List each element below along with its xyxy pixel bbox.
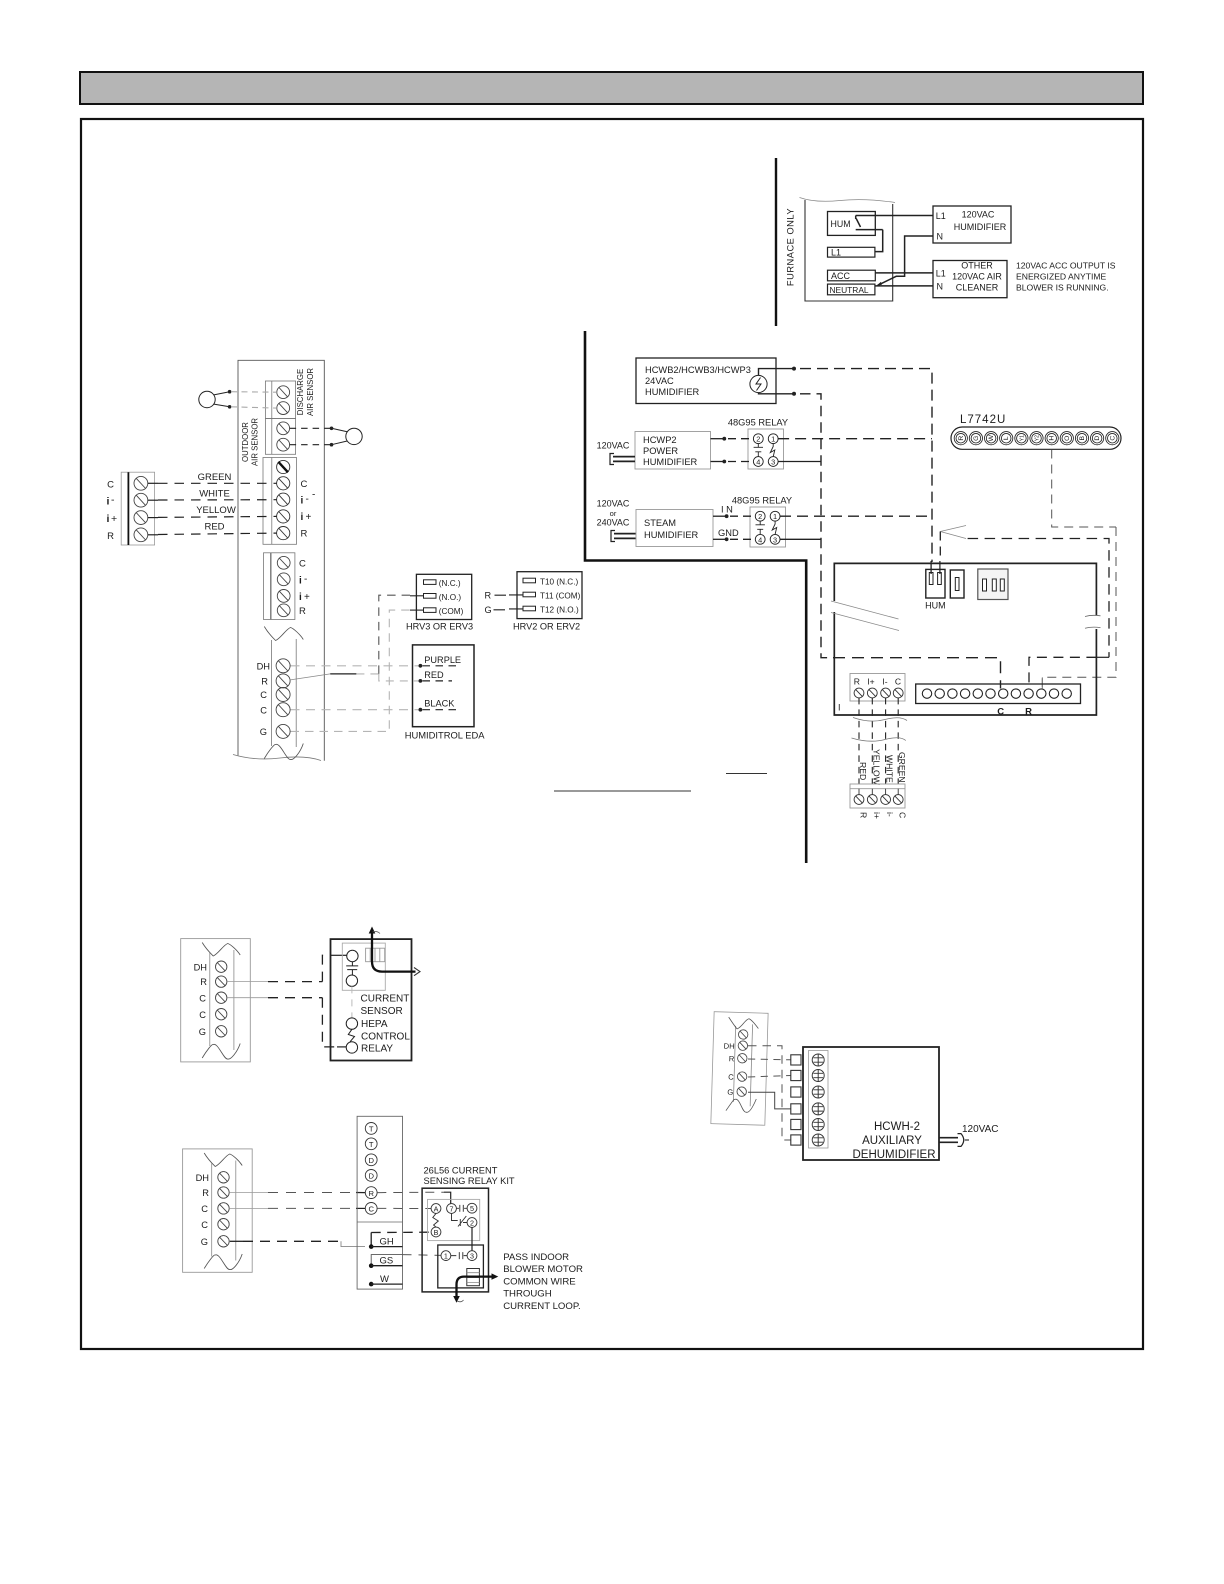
svg-text:L1: L1 [936,268,946,278]
svg-text:H: H [1049,436,1056,441]
junction dot [792,392,796,396]
relay1 coil symbol [754,444,763,457]
GS bracket wire to 1 [371,1255,441,1266]
svg-text:G: G [973,436,980,441]
L7742U pin B [1075,432,1088,445]
HRV3 terminal N.O. [424,594,437,599]
svg-text:CLEANER: CLEANER [956,283,999,293]
svg-text:i: i [301,496,304,507]
svg-text:POWER: POWER [643,446,678,456]
svg-text:R: R [958,436,965,441]
humiditrol PURPLE terminal [419,664,423,668]
main terminal column outline [238,360,324,760]
svg-text:O: O [1064,436,1071,441]
C screw (column) [276,688,290,702]
dashed wire G to COM [291,610,411,731]
svg-text:HUMIDITROL EDA: HUMIDITROL EDA [405,730,486,741]
svg-text:HEPA: HEPA [361,1019,388,1030]
terminal HUM box [828,212,876,236]
svg-text:G: G [485,605,492,615]
HRV2 terminal T11 [523,592,536,597]
main block screw C [277,477,290,490]
GS terminal dot [369,1263,374,1268]
junction dot [792,367,796,371]
arrowhead at NEUTRAL [876,282,882,286]
left block screw i+ [134,511,148,525]
HRV2 terminal T12 [523,606,536,611]
svg-text:Y2: Y2 [1035,435,1041,441]
svg-text:C: C [728,1073,734,1082]
svg-text:C: C [895,677,901,687]
current sensor box [331,939,412,1060]
L7742U pin L [1000,432,1013,445]
furnace-only section divider line [775,158,777,326]
kit terminal 1 [441,1251,451,1261]
L7742U pin H [1045,432,1058,445]
svg-text:C: C [260,705,267,715]
dashed wire relay1 pin1 to HUM net [778,438,932,440]
HUM connector pin 1 [929,573,933,585]
svg-text:T: T [369,1125,374,1134]
relay2 terminal 2 [755,511,765,521]
svg-text:ACC: ACC [831,271,851,281]
svg-text:C: C [368,1205,374,1214]
svg-text:R: R [729,1054,735,1063]
wire NEUTRAL to air cleaner N [875,285,933,287]
wire NEUTRAL diagonal up to humidifier N branch [878,236,934,285]
HUMIDITROL EDA box [413,645,475,727]
svg-text:HCWH-2: HCWH-2 [874,1121,920,1133]
wire steam GND to relay2 pin4 [713,538,727,540]
wire HUM bottom contact down to L1 box [875,230,883,252]
kit terminal A [431,1204,441,1214]
W terminal dot [369,1282,374,1287]
HUM switch symbol [856,216,883,230]
svg-text:3: 3 [470,1252,474,1261]
strip B inner rails [211,1164,213,1257]
HRV3 terminal N.C. [424,580,437,585]
terminal T1 [365,1123,377,1135]
svg-text:D: D [368,1172,374,1181]
svg-text:NEUTRAL: NEUTRAL [830,285,869,295]
svg-text:+: + [111,513,117,525]
contact 7-5 [456,1205,467,1212]
sensor lead dot [330,427,334,431]
svg-text:G: G [260,727,267,737]
svg-text:L7742U: L7742U [960,414,1006,426]
cable entry diagonal hairlines [831,601,899,631]
dashed wire HCWB2 top to HUM pin (vertical x932) [800,369,932,562]
svg-text:N: N [937,281,944,291]
outdoor sensor screw 2 [277,438,290,451]
discharge sensor screw 2 [277,402,290,415]
wire into control box edge [1096,656,1109,658]
kit terminal 3 [467,1251,477,1261]
svg-text:COMMON WIRE: COMMON WIRE [503,1276,575,1287]
plug symbol HCWH-2 [939,1134,969,1147]
dashed wire C to BLACK [291,709,419,711]
svg-text:C: C [299,559,306,570]
svg-text:BLOWER MOTOR: BLOWER MOTOR [503,1264,583,1275]
current sensor inner module [342,943,385,990]
svg-text:RED: RED [858,762,868,780]
svg-text:AIR SENSOR: AIR SENSOR [306,368,315,416]
svg-text:i: i [301,512,304,523]
dashed common wire to strip circle C [833,658,1001,689]
thick blower wire through loop [372,931,416,972]
svg-text:R: R [1025,707,1032,718]
svg-text:i+: i+ [872,812,882,819]
svg-text:HUM: HUM [925,601,946,611]
relay2 coil symbol [756,521,765,534]
svg-text:4: 4 [756,458,760,467]
wavy break across wires 2 [852,738,906,741]
svg-text:RED: RED [424,670,444,680]
wire RED dashed [148,533,277,535]
svg-text:-: - [111,494,115,506]
stray separator line 2 [726,773,767,775]
dashed wire relay2 pin1 to HUM net [780,515,932,517]
svg-text:SENSING RELAY KIT: SENSING RELAY KIT [424,1176,515,1186]
svg-text:R: R [301,529,308,540]
HCWB2/HCWB3/HCWP3 24VAC humidifier box [636,358,776,404]
wire YELLOW dashed [148,516,277,517]
svg-text:48G95 RELAY: 48G95 RELAY [728,418,788,428]
step section divider thick line [585,331,806,863]
wire HUM to L1 terminal of 120VAC humidifier [856,215,933,217]
svg-text:GND: GND [718,528,739,538]
discharge sensor screw 1 [277,386,290,399]
svg-text:T10 (N.C.): T10 (N.C.) [540,578,578,587]
hepa relay contact top [346,1018,357,1029]
strip A wavy bottom [202,1044,240,1060]
svg-text:AUXILIARY: AUXILIARY [862,1135,922,1147]
wire relay2 pin3 to common vertical [780,538,821,540]
dashed wire bulb to discharge screw 1 [231,391,277,394]
discharge air sensor bulb [199,391,230,407]
svg-text:I-: I- [882,677,887,687]
wire C to T-strip C [230,1207,365,1209]
svg-text:R: R [261,677,268,687]
wavy break across wires 1 [853,718,907,722]
svg-text:HRV2 OR ERV2: HRV2 OR ERV2 [513,622,580,632]
connector 2 on control box [950,570,964,598]
svg-text:1: 1 [773,512,777,521]
svg-text:1: 1 [771,435,775,444]
svg-text:D: D [1094,436,1101,441]
wire HCWP2 to relay1 pin2 [711,438,725,440]
wire R to current sensor [228,955,347,981]
svg-text:R: R [299,606,306,617]
svg-text:120VAC: 120VAC [597,441,630,451]
HRV3 terminal COM [424,608,437,613]
HRV2 terminal T10 [523,578,536,583]
svg-text:120VAC: 120VAC [962,1124,999,1135]
main block screw i+ [277,510,290,523]
HCWH-2 screw strip [809,1051,829,1149]
dashed wire L7742U pin H to circle10 [1052,450,1116,528]
svg-text:B: B [434,1228,439,1237]
svg-text:i: i [299,592,302,603]
svg-text:240VAC: 240VAC [597,518,630,528]
svg-text:C: C [201,1204,208,1214]
left block screw R [134,528,148,542]
svg-text:HCWP2: HCWP2 [643,435,677,445]
L7742U pin W [985,432,998,445]
svg-text:THROUGH: THROUGH [503,1289,552,1300]
HRV3 OR ERV3 box [416,574,471,619]
wire L7742U branch into strip circle 10 [1041,677,1043,688]
relay2 terminal 4 [755,534,765,544]
svg-text:SENSOR: SENSOR [361,1006,403,1017]
svg-text:I+: I+ [867,677,874,687]
R I+ I- C terminal block [850,674,905,702]
svg-text:C: C [301,479,308,490]
thermostat control box outline with gaps [834,563,1096,715]
HCWH-2 screws [812,1054,824,1146]
svg-text:AIR SENSOR: AIR SENSOR [251,418,260,466]
svg-text:120VAC: 120VAC [962,210,995,220]
48G95 relay 2 box [750,507,786,547]
main block screw 1 (bold) [277,460,290,473]
kit terminal B [431,1227,441,1237]
wire HCWP2 to relay1 pin4 [711,461,725,463]
svg-text:HRV3 OR ERV3: HRV3 OR ERV3 [406,622,473,632]
svg-text:STEAM: STEAM [644,518,676,528]
block2 screw R [277,604,290,617]
svg-text:7: 7 [450,1205,454,1214]
relay2 terminal 1 [770,511,780,521]
L7742U pin Y1 [1015,432,1028,445]
relay1 terminal 4 [753,457,763,467]
svg-text:R: R [202,1188,209,1198]
terminal R [365,1187,377,1199]
outdoor air sensor terminal strip [265,419,295,455]
furnace box wavy top edge [800,198,896,203]
humiditrol RED terminal [419,679,423,683]
strip B wavy top [204,1153,242,1167]
humidifier motor symbol [750,375,767,392]
current loop hatched block [467,1269,480,1286]
svg-text:HUMIDIFIER: HUMIDIFIER [644,530,699,540]
outdoor sensor screw 1 [277,422,290,435]
svg-text:R: R [200,977,207,987]
L7742U pin G [969,432,982,445]
HCWH-2 terminal squares column [791,1055,801,1145]
svg-text:C: C [107,479,114,490]
L7742U pin R [954,432,967,445]
wire WHITE dashed [148,499,277,502]
L7742U pin C [1106,432,1119,445]
wire relay1 pin3 to common vertical [778,461,820,463]
terminal L1 box [828,247,875,257]
arrowhead right to note [492,1273,499,1279]
steam humidifier box [636,510,713,547]
plug symbol steam [611,531,615,542]
C2 screw (column) [276,703,290,717]
svg-text:(N.C.): (N.C.) [439,579,461,588]
connector 2 pin [955,578,959,591]
wire R to junction [290,674,331,680]
dashed wire bulb to discharge screw 2 [231,407,277,408]
svg-text:L: L [1003,436,1010,440]
slanted DH-G strip near HCWH-2 [711,1012,768,1126]
relay1 contact symbol [770,444,775,457]
sensor lead dot [228,390,232,394]
svg-text:CONTROL: CONTROL [361,1032,410,1043]
R screw (column) [276,674,290,688]
L7742U harness connector pill [951,427,1121,449]
DH-G terminal strip A outer box [181,939,251,1062]
svg-text:RELAY: RELAY [361,1044,393,1055]
wire HCWB2 bottom output [759,393,795,394]
svg-text:RED: RED [204,522,224,533]
main block screw i- [277,493,290,506]
strip A wavy top [202,943,240,957]
short stubs into lower block [859,789,898,795]
outer border frame [81,119,1143,1349]
svg-text:i: i [107,496,110,508]
svg-text:GH: GH [380,1237,394,1248]
column bottom wavy break [233,755,321,761]
svg-text:GREEN: GREEN [198,472,232,483]
svg-text:(COM): (COM) [439,607,464,616]
48G95 relay 1 box [748,429,784,469]
svg-text:DISCHARGE: DISCHARGE [296,369,305,415]
GH bracket wire to B [371,1232,431,1246]
12-circle terminal strip [916,684,1081,704]
terminal NEUTRAL box [828,284,875,295]
main block screw R [277,527,290,540]
svg-text:R: R [107,531,114,542]
dashed wire fork right to R terminal [968,539,1109,658]
wire 2 to 3 [471,1227,473,1250]
discharge air sensor terminal strip [265,381,295,419]
svg-text:HUM: HUM [831,219,851,229]
svg-text:R: R [368,1189,374,1198]
svg-text:C: C [199,1010,206,1020]
dashed wire HCWB2 bottom to common vertical x821 [800,394,833,658]
dashed wire R junction to HRV3 N.O. vertical [356,673,378,675]
main 5-screw terminal block [263,458,297,545]
strip A screws DH R C C G [216,961,227,972]
svg-text:2: 2 [756,435,760,444]
block screws R I+ I- C [854,688,864,698]
svg-text:OUTDOOR: OUTDOOR [241,422,250,462]
connector 3 on control box [978,569,1008,600]
dashed wire outdoor screw1 to bulb [290,427,330,429]
L7742U pin O [1060,432,1073,445]
svg-text:YELLOW: YELLOW [196,505,236,516]
svg-text:ENERGIZED ANYTIME: ENERGIZED ANYTIME [1016,272,1107,282]
svg-text:-: - [306,494,309,505]
L7742U pin D [1091,432,1104,445]
svg-text:3: 3 [771,458,775,467]
svg-text:DEHUMIDIFIER: DEHUMIDIFIER [852,1149,935,1161]
connector 3 pins [983,579,1005,591]
humiditrol BLACK terminal [419,708,423,712]
wire C to hepa relay [228,998,347,1047]
sensor lead dot [330,443,334,447]
kit terminal 7 [447,1204,457,1214]
thick blower common wire through loop [457,1277,495,1299]
svg-text:L1: L1 [831,247,841,257]
svg-text:PURPLE: PURPLE [424,655,461,665]
relay kit inner module [428,1199,480,1240]
svg-text:26L56 CURRENT: 26L56 CURRENT [424,1166,498,1176]
wire G to square 4 [748,1092,791,1109]
relay1 terminal 1 [768,434,778,444]
strip B screws DH R C C G [218,1172,229,1183]
kit lower module box [438,1245,484,1288]
svg-text:T: T [369,1140,374,1149]
terminal D2 [365,1170,377,1182]
svg-text:GS: GS [380,1256,394,1267]
wire HCWB2 top output [759,369,795,376]
plug symbol HCWP2 [610,454,614,465]
terminal T2 [365,1138,377,1150]
svg-text:T12 (N.O.): T12 (N.O.) [540,606,579,615]
svg-text:N: N [937,232,944,242]
relay kit box [422,1188,488,1292]
wire R to square 1 [748,1058,791,1061]
wire G to GH dot [230,1241,365,1246]
svg-text:WHITE: WHITE [199,488,230,499]
relay2 contact symbol [772,521,777,534]
svg-text:C: C [898,812,908,818]
strip A inner rails [209,953,211,1046]
svg-text:R: R [854,677,860,687]
mechanical link dashed [351,986,353,1018]
svg-text:G: G [727,1088,733,1097]
G screw (column) [276,724,290,738]
left block screw C [134,476,148,490]
DH-G terminal strip B outer box [183,1149,253,1272]
contact 1-3 [451,1252,467,1259]
svg-text:2: 2 [470,1219,474,1228]
link 7 to 2 with contact [452,1213,468,1226]
svg-text:-: - [304,574,307,585]
svg-text:W: W [988,434,995,441]
svg-text:3: 3 [773,535,777,544]
kit terminal 5 [467,1203,477,1213]
furnace control box outline [805,200,893,301]
dashed wire C to relay kit A [377,1207,431,1209]
hepa relay contact bottom [346,1042,357,1053]
svg-text:A: A [434,1205,439,1214]
svg-text:BLACK: BLACK [424,699,455,709]
terminal ACC box [828,270,876,281]
dashed wire outdoor screw2 to bulb [290,444,330,446]
svg-text:120VAC: 120VAC [597,499,630,509]
arrowhead down [453,1296,460,1303]
hepa relay zigzag [348,1029,354,1042]
svg-text:R: R [485,591,492,601]
other 120VAC air cleaner box [933,261,1007,298]
dashed wire to strip circle R [1029,657,1096,688]
second 4-screw terminal block [264,553,295,620]
svg-text:5: 5 [470,1204,474,1213]
wire DH to square 6 [748,1046,791,1140]
column inner strip below with wavy break [264,627,303,641]
svg-text:B: B [1079,435,1086,440]
lower block screws [854,795,864,805]
T-strip terminal box [357,1116,402,1289]
svg-text:4: 4 [758,535,762,544]
svg-text:24VAC: 24VAC [645,376,674,386]
svg-text:G: G [199,1027,206,1037]
stray separator line 1 [554,790,691,792]
